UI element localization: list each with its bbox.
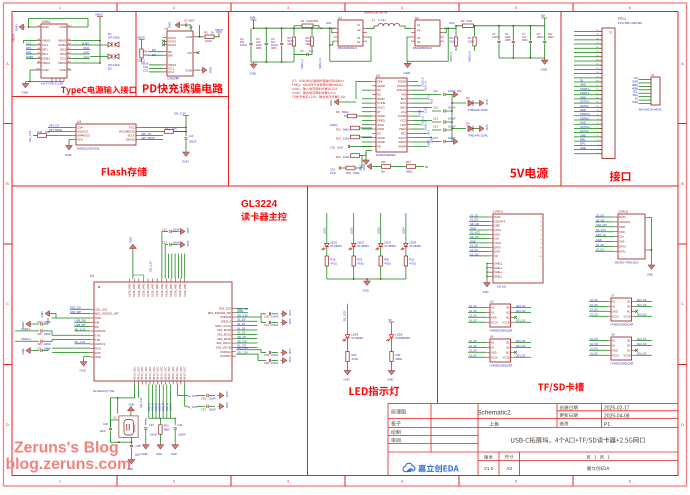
- svg-text:DAT2: DAT2: [619, 215, 626, 219]
- svg-text:L1: L1: [372, 18, 376, 22]
- svg-text:CD/DAT3: CD/DAT3: [494, 219, 506, 223]
- svg-text:S1_D0: S1_D0: [590, 338, 598, 341]
- IC U6 level shifter body: [468, 335, 531, 368]
- svg-text:SD_3.3V: SD_3.3V: [237, 313, 248, 317]
- svg-text:S1_D0: S1_D0: [590, 343, 598, 346]
- svg-text:SD2_CK: SD2_CK: [596, 233, 606, 237]
- svg-text:MS1_INS/SD1_WP: MS1_INS/SD1_WP: [95, 312, 119, 316]
- svg-text:C17: C17: [433, 136, 438, 140]
- svg-text:DAT0: DAT0: [619, 245, 626, 249]
- svg-text:U7: U7: [611, 294, 615, 298]
- svg-text:R8: R8: [450, 36, 454, 40]
- svg-text:BX-KH2.54-8PZZ: BX-KH2.54-8PZZ: [639, 108, 662, 112]
- svg-text:GND: GND: [363, 289, 369, 293]
- svg-text:6800: 6800: [164, 428, 170, 432]
- svg-text:28: 28: [596, 38, 598, 40]
- svg-text:S1_D0: S1_D0: [469, 340, 477, 343]
- svg-text:SD1_D0: SD1_D0: [516, 320, 526, 323]
- svg-text:LED2: LED2: [357, 241, 364, 245]
- svg-text:DN2: DN2: [60, 48, 66, 52]
- svg-text:GND: GND: [65, 153, 73, 157]
- svg-text:VCCB: VCCB: [624, 354, 631, 357]
- svg-text:MICRO-TF08-2NO: MICRO-TF08-2NO: [615, 261, 639, 265]
- svg-text:DAT1: DAT1: [619, 249, 626, 253]
- svg-text:29: 29: [596, 34, 598, 36]
- svg-text:LED3: LED3: [384, 241, 391, 245]
- svg-text:SDA: SDA: [633, 93, 639, 97]
- svg-text:U6: U6: [490, 335, 494, 339]
- svg-text:ST-0805G: ST-0805G: [384, 244, 396, 248]
- svg-text:GND: GND: [42, 25, 50, 29]
- svg-text:GND: GND: [288, 349, 292, 355]
- svg-text:2: 2: [597, 148, 598, 150]
- svg-text:SD_3.3V: SD_3.3V: [75, 327, 86, 331]
- svg-text:GND: GND: [42, 68, 50, 72]
- svg-text:12pF: 12pF: [135, 453, 141, 457]
- svg-text:S1_D0: S1_D0: [590, 314, 598, 317]
- svg-text:VBUS_VCC: VBUS_VCC: [149, 366, 152, 380]
- svg-text:15nF: 15nF: [330, 171, 336, 175]
- svg-text:FREQ: FREQ: [330, 123, 337, 127]
- svg-text:100nF: 100nF: [173, 228, 181, 232]
- svg-text:S1_D0: S1_D0: [469, 310, 477, 313]
- svg-text:21: 21: [596, 68, 598, 70]
- wire typec top loop: [29, 26, 37, 28]
- svg-text:TPB2A45-123PL: TPB2A45-123PL: [468, 108, 489, 112]
- svg-text:16: 16: [596, 89, 598, 91]
- svg-text:CFG3: CFG3: [168, 43, 176, 47]
- diode D1 ESD: [90, 32, 121, 47]
- svg-text:SP-CANL: SP-CANL: [108, 36, 121, 40]
- capacitor C9 sense: [294, 49, 314, 56]
- svg-text:100nF: 100nF: [271, 315, 279, 319]
- svg-text:SSRX2-: SSRX2-: [580, 116, 590, 120]
- svg-text:S1D_M: S1D_M: [169, 403, 172, 411]
- svg-text:23: 23: [596, 60, 598, 62]
- svg-text:VIN: VIN: [250, 16, 256, 20]
- svg-text:R15: R15: [346, 171, 351, 175]
- svg-text:0603: 0603: [306, 43, 312, 46]
- svg-text:SHELL: SHELL: [494, 270, 503, 274]
- svg-text:S1D6_MRG: S1D6_MRG: [184, 283, 187, 297]
- svg-text:VDD5_2: VDD5_2: [221, 320, 232, 324]
- svg-text:S1D_M: S1D_M: [155, 403, 158, 411]
- svg-text:CD: CD: [494, 254, 498, 258]
- svg-text:GND: GND: [483, 290, 489, 294]
- svg-text:VBUS_VCC: VBUS_VCC: [157, 366, 160, 380]
- section label interface: [610, 171, 620, 181]
- svg-text:R3: R3: [204, 31, 208, 35]
- capacitor C22 u4 top: [162, 241, 190, 279]
- svg-text:100nF: 100nF: [178, 433, 186, 437]
- svg-text:18: 18: [596, 81, 598, 83]
- svg-text:SD1_D0: SD1_D0: [516, 310, 526, 313]
- LED branch wires: [323, 213, 406, 243]
- wire 5v input bus: [253, 27, 336, 29]
- title block frame: [388, 404, 678, 476]
- svg-text:S1_VCC: S1_VCC: [470, 231, 480, 235]
- svg-text:VCCB: VCCB: [503, 356, 510, 359]
- wires U4 bottom cluster: [118, 385, 187, 419]
- svg-text:S1D6_MRG: S1D6_MRG: [165, 283, 168, 297]
- resistor R2 5mohm: [444, 19, 545, 28]
- svg-text:NC: NC: [506, 316, 510, 319]
- capacitor C38 crystal: [127, 437, 141, 471]
- svg-text:S1D6_MRG: S1D6_MRG: [170, 283, 173, 297]
- svg-text:1: 1: [540, 217, 541, 219]
- svg-text:C32: C32: [103, 422, 108, 426]
- svg-text:S1_D0: S1_D0: [469, 320, 477, 323]
- resistor R4: [288, 28, 296, 62]
- svg-text:4: 4: [597, 140, 598, 142]
- capacitor C13: [432, 117, 456, 124]
- svg-text:NC: NC: [506, 351, 510, 354]
- diode D3 schottky: [452, 96, 489, 112]
- svg-text:GND: GND: [59, 68, 67, 72]
- svg-text:SSRX1+: SSRX1+: [21, 337, 32, 341]
- svg-text:SNDR: SNDR: [426, 140, 430, 147]
- svg-text:VBUS_VCC: VBUS_VCC: [141, 366, 144, 380]
- connector J1 pin wires: [632, 76, 651, 104]
- wires U2 left fan: [362, 82, 372, 147]
- svg-text:R17: R17: [406, 160, 411, 164]
- svg-text:2025-02-17: 2025-02-17: [604, 406, 630, 412]
- capacitor C2: [240, 28, 253, 62]
- svg-text:1uF: 1uF: [309, 49, 314, 53]
- svg-text:S1D6_MRG: S1D6_MRG: [138, 283, 141, 297]
- svg-text:GND: GND: [632, 100, 638, 104]
- svg-text:U5: U5: [490, 300, 494, 304]
- svg-text:SD_CM: SD_CM: [237, 339, 247, 343]
- svg-text:VBUS_VCC: VBUS_VCC: [145, 366, 148, 380]
- svg-text:G2: G2: [357, 28, 361, 32]
- IC U3 W25Q128 body: [76, 120, 136, 151]
- svg-text:7: 7: [540, 243, 541, 245]
- wire 5v right vertical bus: [451, 95, 453, 142]
- svg-text:YX4835C0805QAR: YX4835C0805QAR: [610, 323, 633, 327]
- svg-text:A: A: [6, 61, 9, 66]
- capacitor C16 flash: [182, 134, 197, 164]
- svg-text:CMD: CMD: [619, 225, 625, 229]
- svg-text:10nF: 10nF: [337, 146, 343, 150]
- resistor R16 bottom: [362, 160, 391, 174]
- IC U5 level shifter body: [468, 300, 531, 333]
- svg-text:CC2: CC2: [168, 70, 174, 74]
- svg-text:C1: C1: [184, 19, 188, 23]
- svg-text:R22: R22: [352, 353, 357, 357]
- connector J1 BX-KH2.54-8PZZ body: [639, 73, 662, 112]
- svg-text:C18: C18: [330, 146, 335, 150]
- svg-text:C9: C9: [300, 49, 304, 53]
- svg-text:B1: B1: [425, 165, 429, 169]
- svg-text:HO1: HO1: [326, 21, 332, 25]
- svg-text:100nF: 100nF: [150, 433, 158, 437]
- svg-text:U4: U4: [90, 274, 94, 278]
- LED LED5 branch: [342, 304, 363, 352]
- svg-text:DN1: DN1: [26, 50, 32, 54]
- svg-text:VCCA: VCCA: [612, 315, 619, 318]
- svg-text:SSRX1-: SSRX1-: [580, 91, 590, 95]
- svg-text:G2: G2: [417, 28, 421, 32]
- svg-text:CH224K: CH224K: [168, 77, 181, 81]
- svg-text:100nF: 100nF: [44, 347, 52, 351]
- svg-text:GND: GND: [168, 22, 172, 28]
- svg-text:5V: 5V: [580, 78, 583, 82]
- svg-text:R2: R2: [461, 19, 465, 23]
- svg-text:GND: GND: [127, 467, 133, 471]
- power flag SD_3.3V flash: [174, 112, 189, 137]
- IC U4 right pins: [208, 307, 236, 359]
- wires typec left signals: [26, 41, 37, 59]
- svg-text:USB_DM: USB_DM: [75, 319, 87, 323]
- IC U4 bottom pins: [134, 366, 187, 384]
- svg-text:SNS1_N: SNS1_N: [318, 58, 322, 69]
- connector FPC1 pin wires: [574, 30, 602, 154]
- capacitor C21 u4 top: [162, 228, 190, 279]
- svg-text:SD1_D0: SD1_D0: [637, 314, 647, 317]
- svg-text:S1D_M: S1D_M: [162, 403, 165, 411]
- svg-text:D2: D2: [108, 67, 112, 71]
- svg-text:17: 17: [596, 85, 598, 87]
- svg-text:SD1_CD: SD1_CD: [70, 306, 81, 310]
- svg-text:GND: GND: [129, 403, 135, 407]
- svg-text:C: C: [6, 301, 9, 306]
- svg-text:DVDD12: DVDD12: [220, 354, 231, 358]
- svg-text:8: 8: [597, 123, 598, 125]
- wire u4 bottom bus: [149, 417, 177, 419]
- svg-text:9: 9: [540, 252, 541, 254]
- svg-text:GND: GND: [580, 133, 586, 137]
- svg-text:GND: GND: [580, 95, 586, 99]
- svg-text:5mΩ: 5mΩ: [307, 19, 313, 23]
- wires typec right signals: [72, 41, 91, 59]
- svg-text:CMD: CMD: [494, 224, 500, 228]
- svg-text:SUB2: SUB2: [58, 43, 66, 47]
- svg-text:SD_CM: SD_CM: [470, 222, 479, 226]
- svg-text:GND: GND: [580, 121, 586, 125]
- svg-text:GND: GND: [612, 349, 618, 352]
- svg-text:0805: 0805: [256, 47, 262, 50]
- svg-text:S1D_M: S1D_M: [166, 403, 169, 411]
- svg-text:GND: GND: [288, 357, 292, 363]
- svg-text:GL3224-QYY04: GL3224-QYY04: [93, 389, 115, 393]
- svg-text:SSRX2+: SSRX2+: [580, 112, 591, 116]
- svg-text:0805: 0805: [313, 20, 319, 23]
- svg-text:DAT1: DAT1: [494, 250, 501, 254]
- svg-text:C28: C28: [264, 315, 269, 319]
- capacitor C29 u4 right: [264, 349, 292, 358]
- wires flash left: [48, 124, 72, 132]
- svg-text:SSRX1+: SSRX1+: [580, 87, 591, 91]
- svg-text:100nF: 100nF: [537, 36, 545, 39]
- svg-text:VBUS: VBUS: [215, 28, 223, 32]
- svg-text:5V: 5V: [635, 97, 638, 101]
- IC U4 top pins: [129, 279, 187, 297]
- svg-text:LED4: LED4: [409, 241, 416, 245]
- svg-text:TPB2A45-123PL: TPB2A45-123PL: [468, 134, 489, 138]
- svg-text:GND: GND: [225, 392, 229, 398]
- svg-text:S2_D0: S2_D0: [596, 243, 604, 247]
- svg-text:Q1: Q1: [338, 16, 342, 20]
- svg-text:5mΩ: 5mΩ: [467, 19, 473, 23]
- svg-text:10K: 10K: [144, 53, 149, 57]
- svg-text:C23: C23: [37, 320, 42, 324]
- svg-text:C30: C30: [201, 397, 206, 401]
- svg-text:SSTX2-: SSTX2-: [580, 129, 590, 133]
- svg-text:27: 27: [596, 43, 598, 45]
- svg-text:S2_D2: S2_D2: [596, 213, 604, 217]
- svg-text:GND: GND: [142, 452, 148, 456]
- svg-text:GND: GND: [288, 319, 292, 325]
- svg-text:CC2: CC2: [60, 57, 66, 61]
- svg-text:RXN: RXN: [95, 346, 101, 350]
- svg-text:VBUS: VBUS: [58, 39, 66, 43]
- capacitor C27 u4 left: [21, 347, 52, 355]
- svg-text:CD/DAT3: CD/DAT3: [619, 220, 631, 224]
- resistor R21 470: [404, 256, 416, 279]
- svg-text:25V: 25V: [457, 89, 462, 93]
- svg-text:S1: S1: [417, 23, 421, 27]
- svg-text:C24: C24: [264, 323, 269, 327]
- svg-text:GND: GND: [237, 309, 243, 313]
- capacitor C23 u4 left: [21, 318, 51, 328]
- svg-text:CC1: CC1: [26, 41, 32, 45]
- svg-text:3: 3: [540, 226, 541, 228]
- resistor R20 470: [379, 256, 391, 279]
- svg-text:S1_D2: S1_D2: [237, 326, 246, 330]
- svg-text:SHELL: SHELL: [494, 262, 503, 266]
- svg-text:S1_D0: S1_D0: [469, 350, 477, 353]
- capacitor C14: [432, 125, 456, 132]
- svg-text:LED5: LED5: [352, 333, 359, 337]
- svg-text:YX4835C0805QAR: YX4835C0805QAR: [489, 364, 512, 368]
- svg-text:S2_VCC: S2_VCC: [187, 394, 198, 398]
- wires U2 right fan: [411, 77, 433, 148]
- svg-text:SSTX1-: SSTX1-: [580, 104, 590, 108]
- section label Flash storage: [102, 168, 107, 175]
- svg-text:2025-04-08: 2025-04-08: [604, 413, 630, 419]
- svg-text:HO1: HO1: [429, 98, 433, 104]
- svg-text:P1: P1: [604, 422, 610, 428]
- svg-text:100nF: 100nF: [44, 332, 52, 336]
- svg-text:SD1_WP: SD1_WP: [70, 310, 81, 314]
- svg-text:R23: R23: [164, 424, 169, 428]
- svg-text:SD1_D0: SD1_D0: [516, 355, 526, 358]
- svg-text:GND: GND: [95, 355, 101, 359]
- svg-text:SD1_D0: SD1_D0: [637, 353, 647, 356]
- svg-text:C: C: [681, 301, 684, 306]
- transistor block Q1 halfbridge: [334, 16, 367, 50]
- ground typec left: [15, 24, 30, 32]
- capacitor C31 s1vcc: [187, 402, 229, 411]
- resistor R7 sense divider: [468, 26, 477, 62]
- capacitor C25 series ssrx1-: [15, 327, 52, 336]
- LED LED4: [401, 241, 421, 257]
- svg-text:4.7uH: 4.7uH: [378, 18, 385, 22]
- svg-text:SD_3.3V: SD_3.3V: [149, 261, 153, 272]
- svg-text:VBUS_VCC: VBUS_VCC: [153, 366, 156, 380]
- svg-text:SD2_MC00: SD2_MC00: [217, 337, 231, 341]
- svg-text:ST-0805G: ST-0805G: [352, 336, 364, 340]
- svg-text:TXN: TXN: [95, 333, 100, 337]
- svg-text:DP1: DP1: [42, 48, 48, 52]
- svg-text:GND: GND: [95, 316, 101, 320]
- svg-text:S1D_M: S1D_M: [159, 403, 162, 411]
- svg-text:V1.0: V1.0: [484, 466, 494, 472]
- svg-text:GND: GND: [186, 228, 190, 234]
- svg-text:ST-0805G: ST-0805G: [409, 244, 421, 248]
- svg-text:VBUS: VBUS: [58, 61, 66, 65]
- svg-text:Schematic2: Schematic2: [477, 410, 511, 417]
- svg-text:SD_CK: SD_CK: [470, 235, 479, 239]
- svg-text:R11: R11: [38, 130, 43, 134]
- svg-text:SD_3.3V: SD_3.3V: [237, 346, 248, 350]
- inductor L1: [364, 11, 411, 29]
- svg-text:DAT2: DAT2: [494, 215, 501, 219]
- svg-text:SWMS1040-4R7M: SWMS1040-4R7M: [364, 11, 388, 15]
- svg-text:56kΩ: 56kΩ: [342, 110, 348, 114]
- svg-text:VBUS: VBUS: [95, 13, 103, 17]
- resistor R6: [306, 28, 314, 53]
- svg-text:SNS1_N: SNS1_N: [423, 81, 427, 91]
- svg-text:12pF: 12pF: [100, 429, 106, 433]
- svg-text:470Ω: 470Ω: [357, 262, 364, 266]
- svg-text:LED4: LED4: [402, 227, 406, 234]
- svg-text:SNS2_P: SNS2_P: [423, 120, 427, 130]
- svg-text:GND: GND: [485, 99, 489, 105]
- svg-text:3: 3: [597, 144, 598, 146]
- svg-text:30: 30: [596, 30, 598, 32]
- svg-text:GND: GND: [362, 164, 366, 170]
- svg-text:SHELL: SHELL: [494, 266, 503, 270]
- ground 5v input caps: [250, 61, 295, 75]
- svg-text:SD1_D0: SD1_D0: [637, 304, 647, 307]
- svg-text:SD2_CD2: SD2_CD2: [219, 307, 232, 311]
- svg-text:100nF: 100nF: [209, 407, 217, 411]
- capacitor C4: [271, 28, 283, 62]
- svg-text:100uF: 100uF: [240, 44, 248, 47]
- IC U1 pins: [162, 35, 199, 74]
- svg-text:VCCA: VCCA: [491, 356, 498, 359]
- svg-text:100nF: 100nF: [44, 320, 52, 324]
- svg-text:S1_D0: S1_D0: [469, 305, 477, 308]
- svg-text:C33: C33: [149, 423, 154, 427]
- svg-text:DP: DP: [95, 325, 99, 329]
- svg-text:D: D: [6, 422, 9, 427]
- diode D4 schottky: [452, 122, 489, 138]
- svg-text:DP1: DP1: [26, 46, 32, 50]
- svg-text:Q2: Q2: [415, 16, 419, 20]
- resistor R3 1K pd: [197, 25, 223, 43]
- svg-text:W25Q128JVSIQ: W25Q128JVSIQ: [77, 147, 100, 151]
- capacitor C17: [432, 136, 458, 145]
- net label SNS1_P SNS1_N: [300, 55, 322, 70]
- svg-text:R24: R24: [396, 353, 401, 357]
- svg-text:GND: GND: [491, 351, 497, 354]
- svg-text:PG: PG: [188, 51, 193, 55]
- svg-text:0603: 0603: [288, 43, 294, 46]
- svg-text:GND: GND: [647, 273, 653, 277]
- connector USB1 TypeC body: [41, 20, 67, 85]
- svg-text:C21: C21: [162, 228, 167, 232]
- svg-text:NCD0805R1: NCD0805R1: [396, 336, 411, 340]
- svg-text:S1: S1: [357, 23, 361, 27]
- svg-text:GND: GND: [632, 79, 638, 83]
- wires flash right: [141, 128, 187, 141]
- svg-text:S1D6_MRG: S1D6_MRG: [175, 283, 178, 297]
- svg-text:VBUS_VCC: VBUS_VCC: [164, 366, 167, 380]
- svg-text:LED1: LED1: [330, 241, 337, 245]
